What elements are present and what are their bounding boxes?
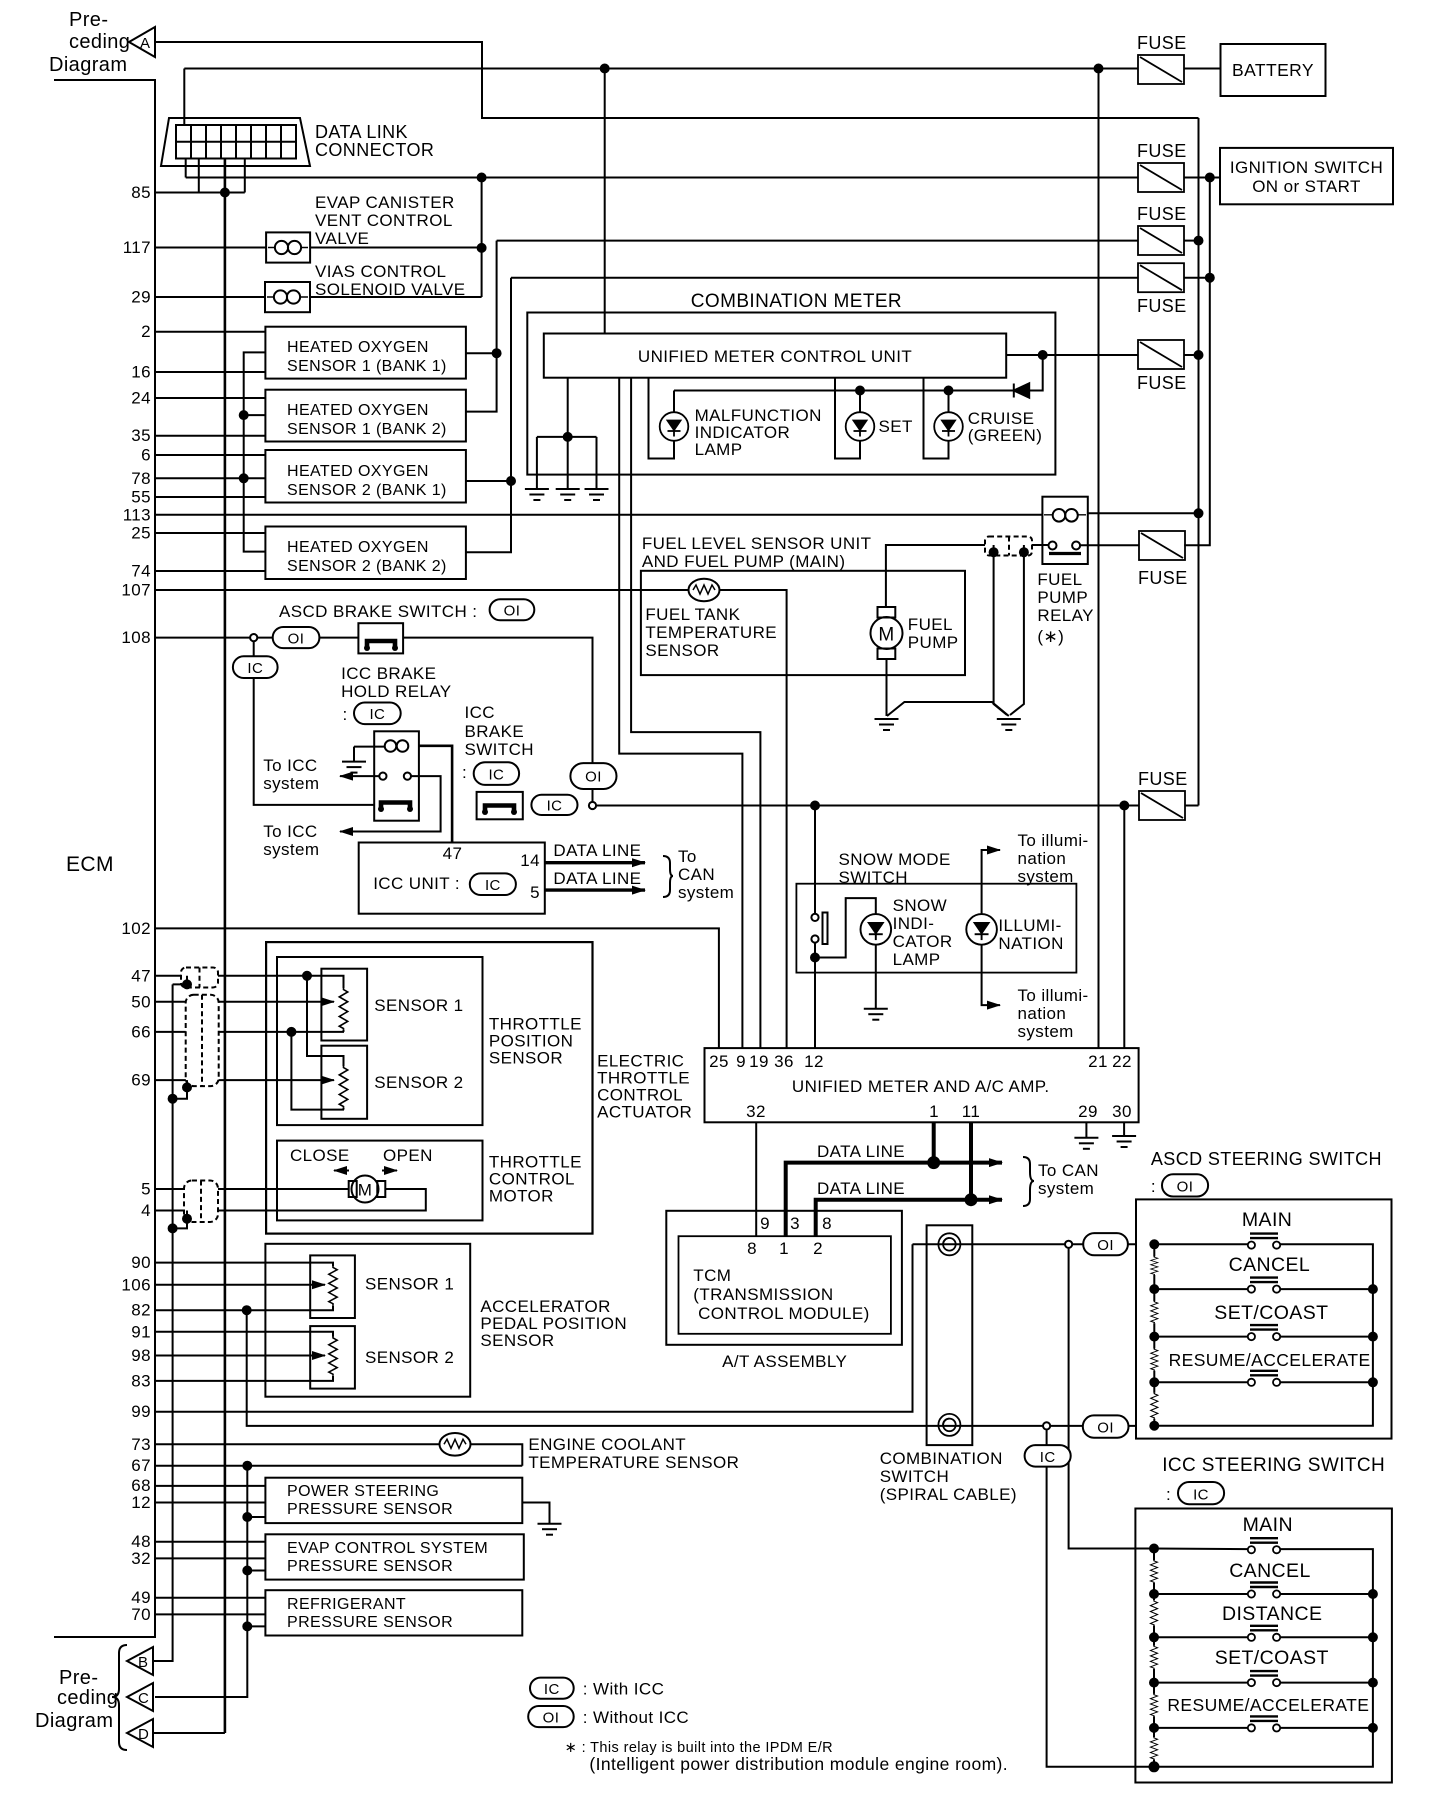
svg-text:30: 30 xyxy=(1112,1102,1132,1121)
throttle motor M xyxy=(352,1176,379,1203)
wire xyxy=(466,278,511,553)
wire: ECM 98 wiper xyxy=(155,1355,325,1357)
wire: fuse5 to meter xyxy=(1006,354,1138,356)
ascd steering switch box xyxy=(1136,1199,1392,1438)
ground (power steering) xyxy=(522,1503,549,1524)
wire: relay no contact xyxy=(340,776,441,831)
relay contacts xyxy=(1049,542,1057,550)
svg-text:OI: OI xyxy=(288,631,305,648)
shield rail to B xyxy=(155,984,173,1661)
svg-text:B: B xyxy=(138,1654,148,1671)
wire: meter ground bus xyxy=(567,378,569,489)
node: open circle xyxy=(1065,1241,1072,1248)
svg-text:OPEN: OPEN xyxy=(383,1146,433,1165)
svg-text:DATA LINE: DATA LINE xyxy=(817,1179,905,1198)
svg-text:IC: IC xyxy=(488,767,504,784)
svg-text:82: 82 xyxy=(131,1301,151,1320)
svg-text:A/T ASSEMBLY: A/T ASSEMBLY xyxy=(722,1352,847,1371)
svg-text:system: system xyxy=(1038,1179,1094,1198)
tcm box xyxy=(679,1236,891,1334)
svg-text:ceding: ceding xyxy=(57,1687,118,1709)
unified meter and a/c amp box xyxy=(705,1048,1139,1122)
wire xyxy=(814,943,816,1049)
node xyxy=(287,1028,295,1036)
svg-text:67: 67 xyxy=(131,1456,151,1475)
node xyxy=(243,1513,251,1521)
wire: IC branch xyxy=(253,641,255,656)
svg-text:CAN: CAN xyxy=(678,865,715,884)
svg-text:IC: IC xyxy=(547,798,563,815)
ignition switch box xyxy=(1220,148,1393,204)
wire: battery feed to UMCU xyxy=(604,69,606,334)
wire: ECM 5 xyxy=(155,1188,349,1190)
node xyxy=(243,1622,251,1630)
svg-text:To ICC: To ICC xyxy=(263,822,317,841)
svg-text:To ICC: To ICC xyxy=(263,756,317,775)
svg-text:IC: IC xyxy=(544,1681,560,1698)
illumination lamp xyxy=(966,914,997,945)
IC oval xyxy=(233,656,278,678)
wire: DLC pin to ignition feed xyxy=(185,159,187,178)
svg-text:M: M xyxy=(878,625,894,646)
svg-text:AND FUEL PUMP (MAIN): AND FUEL PUMP (MAIN) xyxy=(642,552,846,571)
IC oval xyxy=(531,795,577,815)
electric throttle control actuator box xyxy=(266,942,592,1234)
fuse (ignition) xyxy=(1138,163,1184,192)
svg-text:D: D xyxy=(138,1726,149,1743)
svg-text:nation: nation xyxy=(1018,1004,1067,1023)
wire: brake hot feed xyxy=(596,805,1139,807)
accelerator pedal position sensor box xyxy=(265,1244,470,1397)
wire xyxy=(596,437,598,489)
node xyxy=(928,1157,939,1168)
refrigerant pressure sensor box xyxy=(265,1590,522,1635)
svg-text:nation: nation xyxy=(1018,849,1067,868)
svg-text:11: 11 xyxy=(962,1102,980,1121)
svg-text:(SPIRAL CABLE): (SPIRAL CABLE) xyxy=(880,1485,1017,1504)
close arrow xyxy=(334,1170,349,1172)
shield drain 4 xyxy=(173,1211,187,1229)
svg-text:FUSE: FUSE xyxy=(1137,141,1187,161)
wire: meter pin to amp 9 xyxy=(619,378,742,1048)
wire: ECM 49 xyxy=(155,1597,265,1599)
svg-text:83: 83 xyxy=(131,1372,151,1391)
svg-text:25: 25 xyxy=(709,1052,729,1071)
OI oval xyxy=(490,599,535,620)
cruise lamp xyxy=(934,412,963,441)
wire: fuse3 feed xyxy=(497,240,1138,242)
throttle control motor box xyxy=(277,1141,483,1221)
node: open circle xyxy=(1043,1422,1050,1429)
svg-text:RESUME/ACCELERATE: RESUME/ACCELERATE xyxy=(1169,1350,1371,1370)
svg-text:FUSE: FUSE xyxy=(1137,204,1187,224)
wire xyxy=(466,241,497,412)
wire: DLC pin xyxy=(198,159,200,193)
wire: ECM 4 xyxy=(155,1189,426,1211)
wire xyxy=(247,1516,265,1518)
wire: amp32 to tcm 8 xyxy=(755,1122,757,1236)
wire xyxy=(1184,277,1210,279)
node xyxy=(478,174,486,182)
node xyxy=(183,1215,191,1223)
wire: ECM 82 xyxy=(155,1305,333,1310)
node: meter feed tap xyxy=(601,65,609,73)
connector triangle C xyxy=(127,1683,153,1711)
ECM pin labels xyxy=(121,183,151,1624)
svg-text:system: system xyxy=(1018,1022,1074,1041)
wire: evap to rail xyxy=(310,247,482,249)
wire: ECM 99 to spiral cable xyxy=(155,1244,913,1411)
wire: DLC K-line pin xyxy=(224,159,227,193)
wire: DLC pin xyxy=(244,159,246,193)
svg-text:CANCEL: CANCEL xyxy=(1229,1254,1311,1276)
svg-text:DATA LINE: DATA LINE xyxy=(553,841,641,860)
svg-text:36: 36 xyxy=(774,1052,794,1071)
combination switch (spiral cable) box xyxy=(927,1225,973,1445)
svg-text:85: 85 xyxy=(131,183,151,202)
wire: ECM 24 xyxy=(155,397,265,399)
unified meter control unit box xyxy=(544,334,1006,378)
evap control system pressure sensor box xyxy=(265,1534,523,1579)
wire: ECM 74 xyxy=(155,570,265,572)
svg-text:To CAN: To CAN xyxy=(1038,1161,1099,1180)
svg-text:35: 35 xyxy=(131,426,151,445)
svg-text:SENSOR 2 (BANK 2): SENSOR 2 (BANK 2) xyxy=(287,558,447,575)
OI oval xyxy=(570,763,616,789)
svg-text:TEMPERATURE SENSOR: TEMPERATURE SENSOR xyxy=(528,1453,739,1472)
wire: ho2s2 heater rail xyxy=(466,480,511,482)
svg-text:SET: SET xyxy=(879,417,913,436)
wire: ECM 69 wiper xyxy=(155,1079,334,1081)
svg-text:A: A xyxy=(140,35,150,52)
svg-text:VIAS CONTROL: VIAS CONTROL xyxy=(315,262,446,281)
svg-text:DATA LINE: DATA LINE xyxy=(817,1142,905,1161)
svg-text:FUEL LEVEL SENSOR UNIT: FUEL LEVEL SENSOR UNIT xyxy=(642,534,872,553)
node xyxy=(478,244,486,252)
wire xyxy=(592,789,594,802)
fuel level sensor unit box xyxy=(641,571,965,675)
svg-text:14: 14 xyxy=(520,851,540,870)
tps sensor 1 box xyxy=(321,969,367,1041)
wire: MIL cathode xyxy=(649,378,675,459)
svg-text:66: 66 xyxy=(131,1023,151,1042)
wire: lamp to ground xyxy=(875,945,877,1009)
connector triangle D xyxy=(127,1719,153,1747)
evap canister vent control valve coil xyxy=(266,232,310,262)
wire: battery feed xyxy=(184,68,1138,70)
svg-text:IC: IC xyxy=(247,660,263,677)
wire: fuse4 feed xyxy=(511,277,1138,279)
node xyxy=(221,189,229,197)
wire xyxy=(948,391,950,413)
ground xyxy=(525,489,549,500)
shield connector (47) dashed xyxy=(181,968,218,988)
OI oval xyxy=(1083,1233,1128,1255)
node xyxy=(966,1194,977,1205)
svg-text:78: 78 xyxy=(131,469,151,488)
wire: ECM 35 xyxy=(155,435,265,437)
node xyxy=(1206,174,1214,182)
svg-text:SENSOR 2 (BANK 1): SENSOR 2 (BANK 1) xyxy=(287,482,447,499)
ground stub xyxy=(354,746,385,748)
a/t assembly box xyxy=(666,1211,902,1345)
svg-text:SNOW: SNOW xyxy=(893,896,947,915)
brace xyxy=(663,856,673,897)
shield drain 69 xyxy=(173,1080,187,1099)
fuel pump relay box xyxy=(1042,497,1087,564)
svg-text:SET/COAST: SET/COAST xyxy=(1214,1302,1328,1324)
shield connector (5/4) dashed xyxy=(184,1181,218,1223)
svg-text:SWITCH: SWITCH xyxy=(839,868,908,887)
svg-text:SENSOR: SENSOR xyxy=(489,1049,563,1068)
app sensor 1 box xyxy=(310,1255,355,1318)
node xyxy=(811,954,819,962)
svg-text:22: 22 xyxy=(1112,1052,1132,1071)
svg-text:12: 12 xyxy=(804,1052,824,1071)
wire: 82 branch to spiral cable xyxy=(247,1310,927,1426)
svg-text:29: 29 xyxy=(131,288,151,307)
svg-text:LAMP: LAMP xyxy=(893,950,941,969)
IC oval xyxy=(1025,1445,1071,1467)
wire: ECM 117 xyxy=(155,247,266,249)
wire xyxy=(403,638,592,764)
node: open circle xyxy=(250,634,257,641)
svg-text:117: 117 xyxy=(123,238,151,257)
svg-text:BATTERY: BATTERY xyxy=(1232,60,1314,80)
svg-text:HEATED OXYGEN: HEATED OXYGEN xyxy=(287,402,429,419)
svg-text:M: M xyxy=(358,1181,373,1200)
svg-text:113: 113 xyxy=(123,506,151,525)
heated oxygen sensor 1 (bank 2) box xyxy=(265,390,466,442)
svg-text:MAIN: MAIN xyxy=(1242,1209,1292,1231)
node xyxy=(243,1567,251,1575)
wire xyxy=(247,1625,265,1627)
wire: K-line down xyxy=(224,193,227,1734)
svg-text:SENSOR 1 (BANK 2): SENSOR 1 (BANK 2) xyxy=(287,421,447,438)
ground xyxy=(864,1009,888,1020)
svg-text:HEATED OXYGEN: HEATED OXYGEN xyxy=(287,463,429,480)
brace xyxy=(112,1645,127,1750)
svg-text:NATION: NATION xyxy=(998,934,1063,953)
battery box xyxy=(1221,44,1326,96)
wire: ftt to amp 36 xyxy=(720,590,787,1048)
wire xyxy=(343,1030,345,1032)
svg-text:ICC STEERING SWITCH: ICC STEERING SWITCH xyxy=(1162,1455,1385,1476)
wire: ECM 55 xyxy=(155,496,265,498)
svg-text:50: 50 xyxy=(131,993,151,1012)
node xyxy=(1150,1240,1158,1248)
svg-text:5: 5 xyxy=(530,883,540,902)
node xyxy=(183,980,191,988)
svg-text:EVAP CANISTER: EVAP CANISTER xyxy=(315,193,455,212)
svg-text:SENSOR 1: SENSOR 1 xyxy=(365,1275,454,1294)
svg-text:DATA LINK: DATA LINK xyxy=(315,122,408,142)
shield drain 47 xyxy=(173,976,187,985)
open arrow xyxy=(382,1170,397,1172)
wire stubs to ground xyxy=(993,545,995,552)
svg-text:SENSOR 2: SENSOR 2 xyxy=(374,1073,463,1092)
svg-text:COMBINATION METER: COMBINATION METER xyxy=(691,291,902,312)
wire: ECM 6 xyxy=(155,454,265,456)
svg-text:107: 107 xyxy=(121,581,151,600)
connector triangle B xyxy=(127,1647,153,1675)
svg-text:C: C xyxy=(138,1690,149,1707)
svg-text:PRESSURE SENSOR: PRESSURE SENSOR xyxy=(287,1501,453,1518)
svg-text:IGNITION SWITCH: IGNITION SWITCH xyxy=(1230,158,1383,177)
node xyxy=(1195,237,1203,245)
tps sensor 2 resistor xyxy=(339,1066,347,1108)
svg-text:47: 47 xyxy=(443,844,463,863)
wire: amp22 to brake hot xyxy=(1123,806,1125,1049)
svg-text:(TRANSMISSION: (TRANSMISSION xyxy=(693,1285,833,1304)
svg-text:ICC BRAKE: ICC BRAKE xyxy=(341,664,436,683)
svg-text:FUSE: FUSE xyxy=(1137,33,1187,53)
svg-text:: With ICC: : With ICC xyxy=(583,1680,664,1699)
svg-text:ON or START: ON or START xyxy=(1252,177,1361,196)
node: amp pin21 tap xyxy=(1095,65,1103,73)
wire: ECM 106 wiper xyxy=(155,1284,325,1286)
icc steering switch box xyxy=(1135,1509,1392,1783)
svg-text:SENSOR 1 (BANK 1): SENSOR 1 (BANK 1) xyxy=(287,358,447,375)
wire xyxy=(257,637,358,639)
svg-text:69: 69 xyxy=(131,1071,151,1090)
svg-text:Diagram: Diagram xyxy=(49,54,127,76)
svg-text:HEATED OXYGEN: HEATED OXYGEN xyxy=(287,539,429,556)
svg-text:98: 98 xyxy=(131,1346,151,1365)
icc brake hold relay box xyxy=(374,731,419,820)
wire: ECM 32 xyxy=(155,1557,265,1559)
node xyxy=(1120,802,1128,810)
wire: valve supply rail xyxy=(481,178,483,298)
OI legend xyxy=(528,1706,574,1727)
svg-text:To: To xyxy=(678,847,697,866)
wire: ECM 2 xyxy=(155,331,265,333)
svg-text:73: 73 xyxy=(131,1435,151,1454)
wire xyxy=(1072,1243,1136,1245)
wire: ECM 83 xyxy=(155,1376,333,1381)
combination meter box xyxy=(527,313,1055,475)
svg-text:RELAY: RELAY xyxy=(1037,606,1094,625)
relay bottom contact xyxy=(381,803,410,811)
svg-text:UNIFIED METER AND A/C AMP.: UNIFIED METER AND A/C AMP. xyxy=(792,1077,1050,1096)
wire: ECM 85 xyxy=(155,192,245,194)
wire xyxy=(859,391,861,413)
svg-text:CANCEL: CANCEL xyxy=(1229,1560,1311,1582)
node xyxy=(1206,274,1214,282)
node xyxy=(856,387,864,395)
wire: ECM 25 xyxy=(155,532,265,534)
OI oval xyxy=(1083,1415,1129,1437)
svg-text:FUEL TANK: FUEL TANK xyxy=(645,605,740,624)
svg-text:RESUME/ACCELERATE: RESUME/ACCELERATE xyxy=(1167,1695,1369,1715)
svg-text:FUSE: FUSE xyxy=(1138,568,1188,588)
fuse (battery) xyxy=(1138,55,1184,84)
wire: battery feed drop to DLC xyxy=(183,69,185,126)
svg-text:HEATED OXYGEN: HEATED OXYGEN xyxy=(287,339,429,356)
svg-text:25: 25 xyxy=(131,524,151,543)
sensor ground rail to C xyxy=(155,1466,247,1697)
wire: ECM 91 xyxy=(155,1332,333,1337)
node xyxy=(1195,351,1203,359)
wire xyxy=(310,296,482,298)
ground tent xyxy=(887,702,1009,716)
node xyxy=(1150,1762,1159,1771)
wire: spiral 1 row xyxy=(913,1243,1066,1245)
ECM box outline xyxy=(54,80,155,1637)
svg-text:ASCD BRAKE SWITCH :: ASCD BRAKE SWITCH : xyxy=(279,602,477,621)
svg-text:TEMPERATURE: TEMPERATURE xyxy=(645,623,777,642)
svg-text:3: 3 xyxy=(790,1214,800,1233)
wire xyxy=(247,1570,265,1572)
ground xyxy=(585,489,609,500)
wire xyxy=(1184,177,1220,179)
svg-text:ceding: ceding xyxy=(69,31,130,53)
node xyxy=(564,433,572,441)
svg-text:9: 9 xyxy=(760,1214,770,1233)
svg-text:(∗): (∗) xyxy=(1037,627,1064,646)
svg-text:SENSOR 1: SENSOR 1 xyxy=(374,996,463,1015)
node xyxy=(945,387,953,395)
svg-text:INDI-: INDI- xyxy=(893,914,935,933)
power steering pressure sensor box xyxy=(265,1478,522,1523)
svg-text::: : xyxy=(343,705,348,724)
svg-text:70: 70 xyxy=(131,1605,151,1624)
svg-text:FUEL: FUEL xyxy=(908,615,953,634)
wire xyxy=(1029,355,1043,391)
svg-text:To illumi-: To illumi- xyxy=(1018,986,1089,1005)
wire xyxy=(1184,68,1221,70)
wire: amp1 xyxy=(932,1122,936,1162)
svg-text:OI: OI xyxy=(1097,1420,1114,1437)
wire: ECM 12 xyxy=(155,1502,265,1504)
svg-text:ECM: ECM xyxy=(66,853,114,876)
ground xyxy=(997,719,1021,730)
wire: ECM 107 to fuel tank temp sensor xyxy=(155,589,689,591)
vias control solenoid valve coil xyxy=(265,282,310,312)
svg-text:6: 6 xyxy=(141,446,151,465)
IC legend xyxy=(530,1678,574,1699)
wire: tps ground link xyxy=(291,1032,344,1110)
svg-text:system: system xyxy=(678,883,734,902)
wire: battery rail down xyxy=(1198,118,1200,806)
svg-text:Diagram: Diagram xyxy=(35,1710,113,1732)
svg-text:1: 1 xyxy=(929,1102,939,1121)
node xyxy=(183,1083,191,1091)
svg-text:VALVE: VALVE xyxy=(315,229,369,248)
wire: ECM 16 xyxy=(155,371,265,373)
svg-text:LAMP: LAMP xyxy=(695,440,743,459)
svg-text:ICC UNIT :: ICC UNIT : xyxy=(373,874,460,893)
set lamp xyxy=(846,412,875,441)
svg-text:UNIFIED METER CONTROL UNIT: UNIFIED METER CONTROL UNIT xyxy=(638,347,912,366)
shield connector (50/66/69) dashed xyxy=(186,995,219,1086)
node xyxy=(1150,1545,1158,1553)
svg-text:5: 5 xyxy=(141,1180,151,1199)
tps sensor 1 resistor xyxy=(339,988,347,1030)
wire xyxy=(1184,240,1199,242)
icc data line 1 xyxy=(545,861,645,864)
svg-text:2: 2 xyxy=(141,322,151,341)
connector triangle A xyxy=(129,27,155,57)
wire: to snow lamp xyxy=(815,898,876,957)
svg-text:: Without ICC: : Without ICC xyxy=(583,1708,689,1727)
app sensor 2 box xyxy=(310,1326,355,1389)
malfunction indicator lamp xyxy=(660,412,689,441)
engine coolant temperature sensor xyxy=(440,1433,471,1456)
svg-text:47: 47 xyxy=(131,967,151,986)
svg-text:FUEL: FUEL xyxy=(1037,570,1082,589)
wire: A to battery rail corner xyxy=(155,42,1199,118)
